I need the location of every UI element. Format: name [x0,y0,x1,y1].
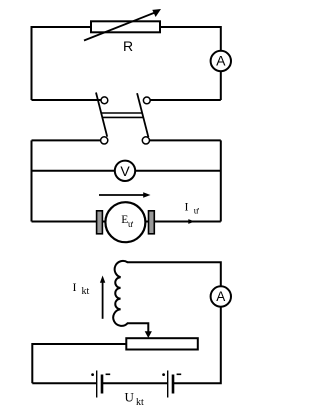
svg-text:R: R [123,38,133,54]
svg-text:U: U [125,390,135,405]
svg-text:A: A [216,289,225,304]
svg-text:A: A [216,53,226,69]
svg-text:kt: kt [136,397,144,408]
svg-text:I: I [73,280,77,294]
svg-text:ư: ư [194,206,200,216]
svg-text:kt: kt [82,286,90,297]
svg-text:I: I [185,200,189,214]
svg-text:V: V [120,163,130,179]
